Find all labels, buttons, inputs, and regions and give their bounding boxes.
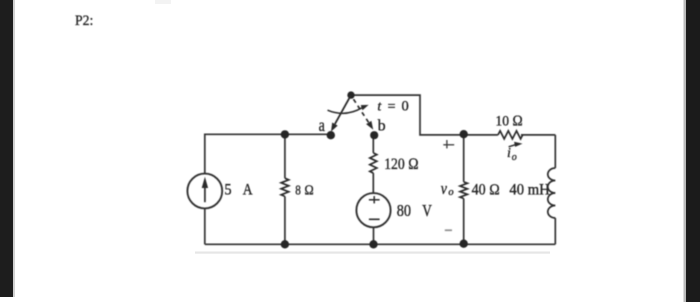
switch blade (solid, pointing to a) [331, 95, 351, 132]
node a terminal dot [327, 131, 335, 139]
wire bottom bus [205, 243, 556, 245]
svg-text:120 Ω: 120 Ω [384, 156, 418, 173]
switch dashed blade moving to b [354, 99, 374, 129]
switch swing arc with arrowhead [328, 105, 369, 113]
label minus polarity of v_o [445, 229, 452, 231]
svg-text:=: = [388, 99, 396, 114]
voltage source minus sign [369, 218, 380, 220]
wire 40-ohm branch top [463, 135, 465, 182]
wire right edge below inductor [554, 218, 556, 244]
wire left vertical below current source to bottom bus [204, 208, 206, 244]
resistor 8 ohm zigzag [281, 178, 289, 196]
node junction dot 40-ohm top [460, 130, 468, 138]
svg-text:P2:: P2: [75, 12, 93, 29]
wire terminal b down to 120-ohm [372, 135, 374, 153]
svg-text:0: 0 [402, 98, 409, 114]
node junction dot 80V bottom [369, 240, 377, 248]
wire right edge above inductor [554, 135, 556, 168]
wire switch pivot to top-right corner then down to 10-ohm [351, 95, 498, 135]
node junction dot 8-ohm bottom [281, 240, 289, 248]
right page-edge black bar (decorative) [686, 0, 700, 302]
wire top-left bus from left corner to switch terminal a [205, 134, 331, 173]
left page-edge black bar (decorative) [0, 0, 13, 297]
inductor 40 mH coil [548, 168, 556, 218]
wire 10-ohm to right edge [521, 134, 555, 136]
svg-text:5: 5 [224, 181, 232, 199]
node b terminal dot [370, 131, 378, 139]
current arrow i_o [509, 142, 523, 147]
voltage source 80V circle [356, 193, 390, 227]
svg-text:8: 8 [295, 182, 301, 197]
current source 5A circle [187, 174, 222, 209]
wire 80V source bottom to bus [373, 227, 375, 244]
svg-text:80: 80 [397, 202, 411, 220]
svg-text:a: a [319, 116, 325, 135]
svg-text:10 Ω: 10 Ω [495, 113, 522, 130]
node junction dot 8-ohm top [281, 130, 289, 138]
svg-text:o: o [448, 187, 453, 198]
wire 120-ohm to 80V source [372, 173, 374, 193]
node junction dot 40-ohm bottom [460, 240, 468, 248]
svg-text:40 Ω: 40 Ω [472, 182, 500, 199]
resistor 10 ohm zigzag [498, 131, 523, 139]
svg-text:Ω: Ω [304, 182, 313, 198]
wire 40-ohm branch bottom [463, 199, 465, 245]
svg-text:V: V [422, 202, 432, 221]
resistor 120 ohm zigzag [370, 153, 377, 173]
wire 8-ohm branch top [284, 134, 286, 178]
label + polarity of v_o [443, 140, 454, 148]
svg-text:A: A [243, 182, 253, 199]
svg-text:o: o [512, 152, 517, 163]
svg-text:i: i [507, 146, 511, 161]
switch pivot node dot [347, 91, 354, 98]
wire 8-ohm branch bottom [284, 196, 286, 244]
svg-text:v: v [441, 180, 447, 199]
resistor 40 ohm zigzag [460, 182, 467, 199]
svg-text:40 mH: 40 mH [509, 182, 549, 198]
svg-text:b: b [378, 118, 386, 135]
current source arrow [202, 177, 208, 203]
voltage source plus sign [369, 196, 380, 203]
